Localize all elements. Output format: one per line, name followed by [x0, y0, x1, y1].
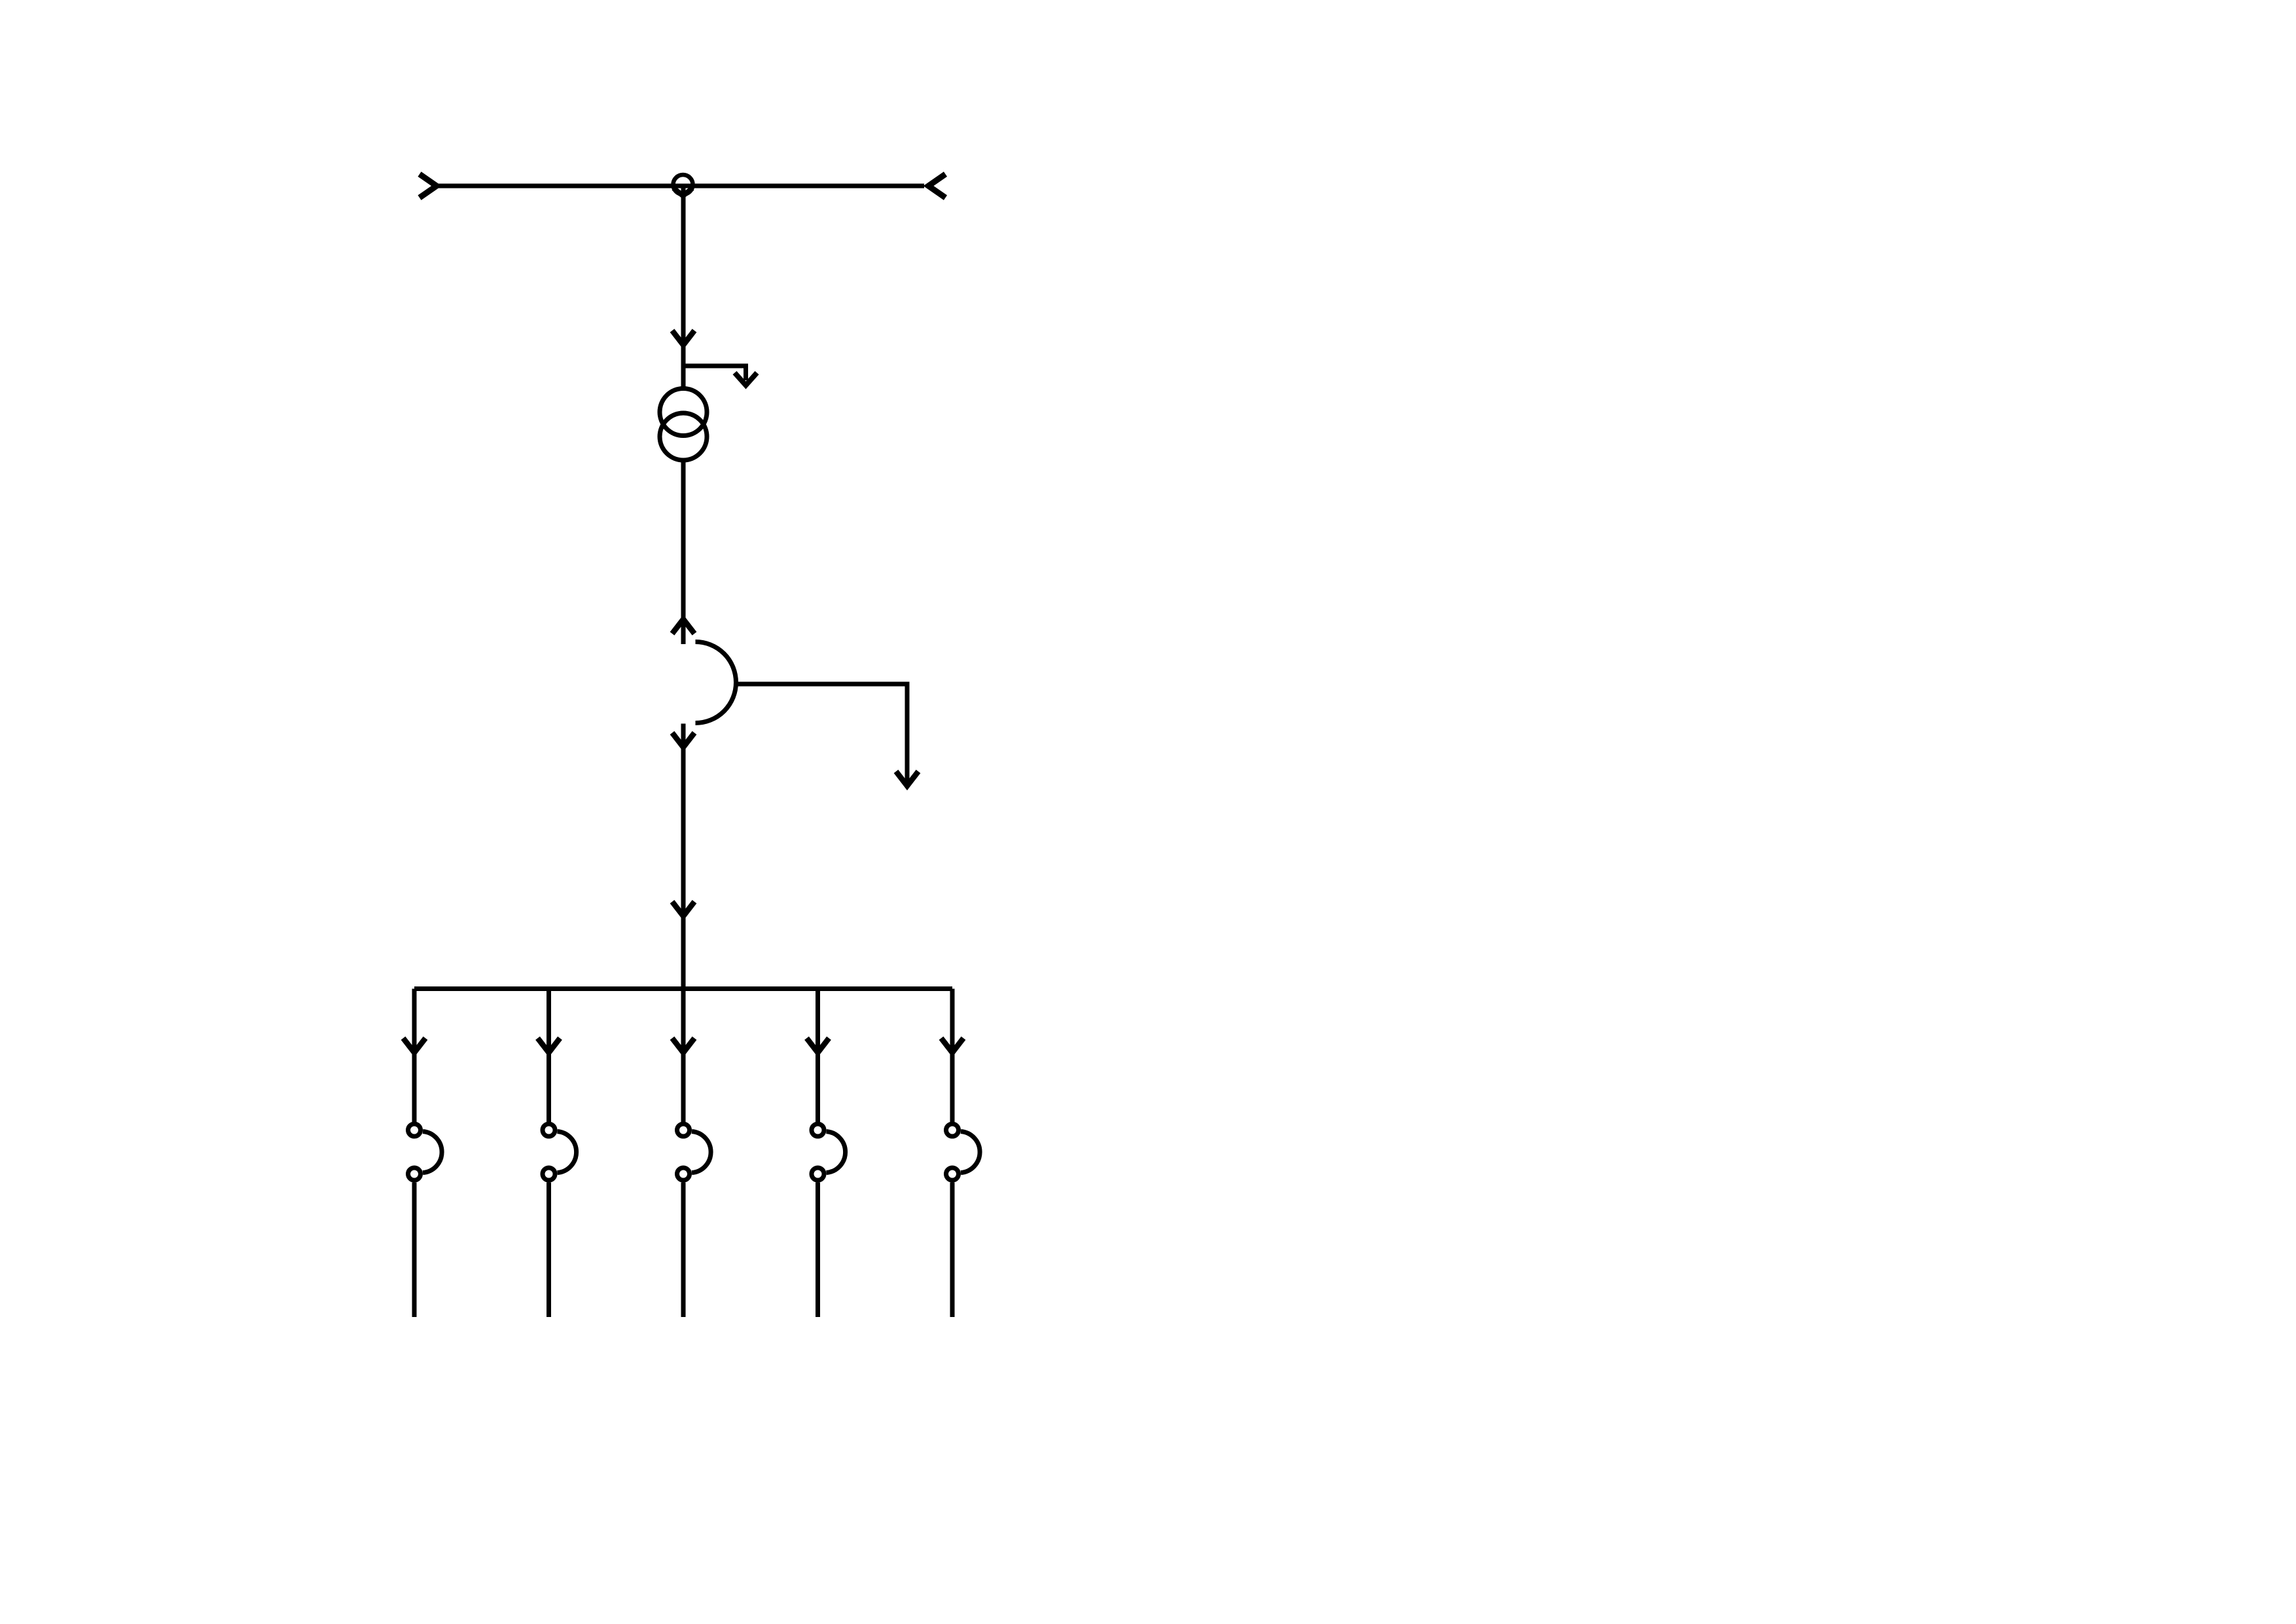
wire branch tap before transformer: [683, 366, 746, 380]
arrow feeder 1: [403, 1038, 425, 1053]
switch Q2 bottom contact: [543, 1168, 555, 1180]
switch Q2 blade arc: [558, 1132, 577, 1173]
arrow up withdrawable contact: [672, 619, 694, 634]
arrow feeder 4: [807, 1038, 829, 1053]
wire feeder 5 drop: [950, 989, 955, 1123]
wire CT secondary branch: [735, 684, 907, 782]
transformer T1 secondary winding: [660, 413, 707, 460]
switch Q1 top contact: [408, 1124, 421, 1136]
switch Q3 top contact: [677, 1124, 690, 1136]
switch Q4 top contact: [812, 1124, 824, 1136]
node tap-off junction circle: [673, 175, 693, 194]
switch Q4 blade arc: [827, 1132, 846, 1173]
arrow right bus continuation: [929, 174, 946, 198]
wire feeder 2 drop: [547, 989, 551, 1123]
wire breaker to LV bus: [681, 724, 686, 1123]
busbar B1 (incoming HV bus): [437, 184, 924, 189]
wire feeder 4 drop: [816, 989, 820, 1123]
switch Q5 bottom contact: [946, 1168, 959, 1180]
arrow down on LV incomer: [672, 902, 694, 916]
arrow feeder 5: [941, 1038, 963, 1053]
current transformer CT arc: [696, 642, 736, 723]
arrow left bus continuation: [420, 174, 437, 198]
wire feeder 5 outgoing: [950, 1183, 955, 1318]
switch Q5 blade arc: [961, 1132, 980, 1173]
busbar B2 (LV distribution bus): [414, 986, 952, 991]
wire bus to transformer: [681, 185, 686, 388]
switch Q3 bottom contact: [677, 1168, 690, 1180]
arrow down on incoming feeder: [672, 331, 694, 345]
wire feeder 1 drop: [412, 989, 417, 1123]
arrow feeder 3: [672, 1038, 694, 1053]
arrow feeder 2: [538, 1038, 560, 1053]
wire transformer to breaker: [681, 460, 686, 644]
switch Q3 blade arc: [692, 1132, 711, 1173]
switch Q2 top contact: [543, 1124, 555, 1136]
arrow down withdrawable contact: [672, 733, 694, 748]
switch Q5 top contact: [946, 1124, 959, 1136]
transformer T1 primary winding: [660, 389, 707, 436]
arrow CT branch end: [896, 772, 918, 786]
wire feeder 4 outgoing: [816, 1183, 820, 1318]
switch Q4 bottom contact: [812, 1168, 824, 1180]
arrow branch tap: [735, 373, 757, 386]
wire feeder 3 outgoing: [681, 1183, 686, 1318]
wire feeder 1 outgoing: [412, 1183, 417, 1318]
arrow inside junction circle: [673, 189, 692, 196]
wire feeder 2 outgoing: [547, 1183, 551, 1318]
switch Q1 bottom contact: [408, 1168, 421, 1180]
switch Q1 blade arc: [423, 1132, 442, 1173]
